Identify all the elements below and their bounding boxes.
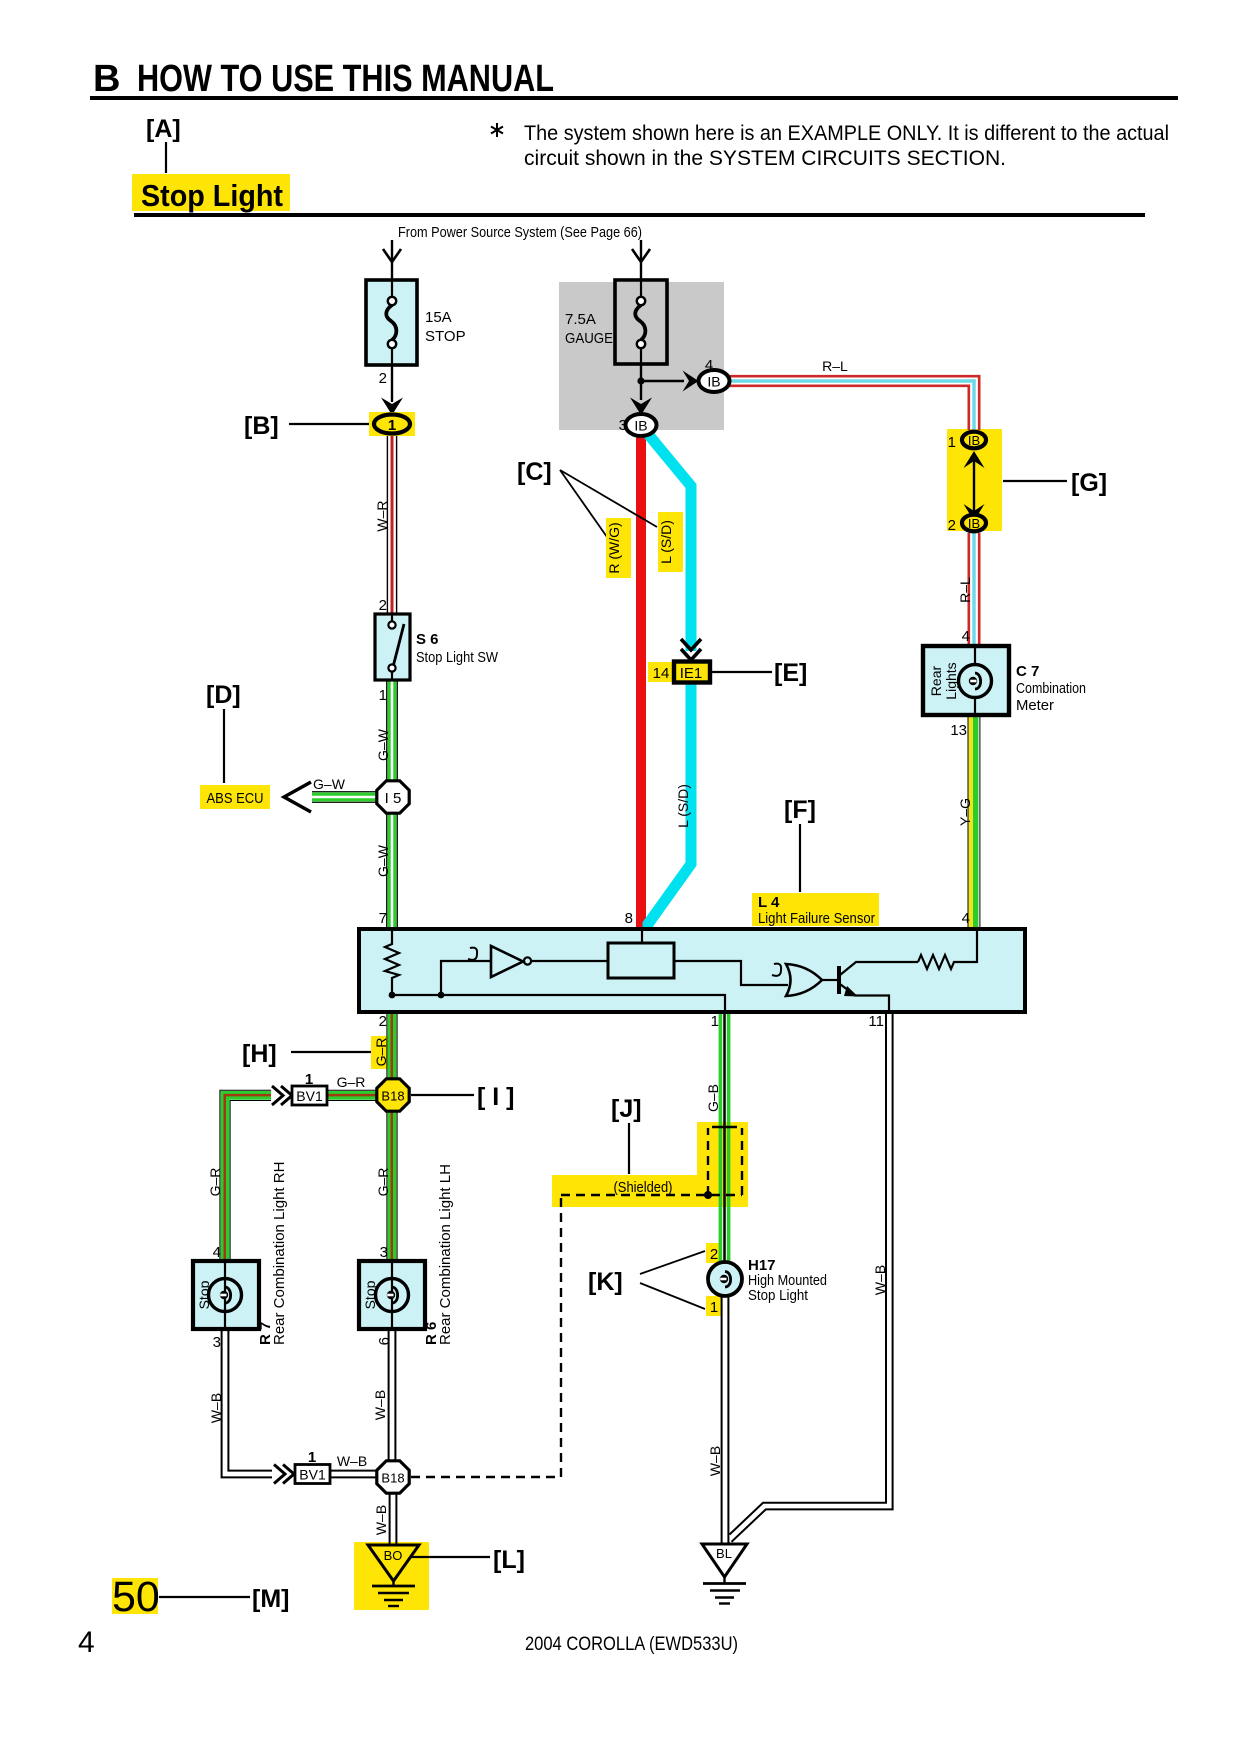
svg-text:BL: BL: [716, 1546, 732, 1561]
L4 light failure sensor box: [359, 929, 1025, 1012]
svg-text:BO: BO: [384, 1548, 403, 1563]
junction node: [637, 377, 644, 384]
svg-text:8: 8: [625, 910, 633, 927]
L4 control box: [608, 943, 674, 978]
svg-text:2: 2: [379, 1013, 387, 1030]
svg-text:2: 2: [948, 517, 956, 534]
svg-text:IB: IB: [634, 418, 647, 434]
svg-text:R–L: R–L: [957, 577, 973, 603]
svg-text:L 4: L 4: [758, 894, 780, 911]
wire fuse to connector 1: [391, 365, 393, 402]
svg-text:[E]: [E]: [774, 659, 807, 687]
GRAYBOX: [354, 282, 1002, 1610]
ABS ECU highlighted: [200, 785, 270, 809]
svg-text:6: 6: [376, 1337, 393, 1345]
svg-text:2: 2: [379, 597, 387, 614]
svg-text:W–B: W–B: [372, 1390, 388, 1420]
svg-text:4: 4: [962, 910, 970, 927]
highlight zone G connectors: [947, 429, 1002, 531]
svg-text:11: 11: [868, 1013, 884, 1030]
wire G-W (I5 to ABS ECU arrow): [312, 792, 377, 803]
wire W-B (L4 pin 11 down, corner, diagonal to BL): [730, 1011, 893, 1542]
switch S6 Stop Light SW: [375, 614, 499, 680]
svg-text:1: 1: [711, 1013, 719, 1030]
highlight zone ground BO: [354, 1542, 429, 1610]
label L: [410, 1546, 525, 1574]
junction arrows between IB1 and IB2: [973, 460, 975, 512]
wire L (S/D) thick cyan (IB to L4 pin 8): [648, 434, 691, 651]
svg-text:R–L: R–L: [822, 358, 848, 374]
ground BL: [702, 1544, 747, 1604]
fuse 15A STOP: [366, 280, 466, 365]
arrow into IB 4: [683, 371, 699, 392]
svg-text:W–B: W–B: [707, 1446, 723, 1476]
L4 name highlighted: [752, 893, 879, 927]
svg-text:[H]: [H]: [242, 1040, 277, 1068]
svg-text:15A: 15A: [425, 309, 452, 326]
svg-text:1: 1: [948, 434, 956, 451]
svg-text:W–R: W–R: [374, 500, 390, 531]
L4 internal branch to buffer: [441, 961, 490, 995]
L4 transistor Q1: [837, 966, 841, 994]
wire G-R (left corner to chevron, and down to R7): [220, 1090, 271, 1261]
svg-text:2: 2: [379, 370, 387, 387]
connector BV1 lower: [295, 1465, 330, 1484]
wire W-B (R6 pin 6 to B18): [389, 1329, 396, 1461]
wire G-R (L4 pin 2 to connector B18): [387, 1012, 397, 1079]
connector IB 4: [699, 370, 730, 392]
svg-text:Stop Light SW: Stop Light SW: [416, 649, 499, 666]
svg-text:The system shown here is an EX: The system shown here is an EXAMPLE ONLY…: [524, 122, 1169, 145]
label C with callouts: [517, 458, 657, 537]
svg-text:G–R: G–R: [207, 1168, 223, 1197]
connector B18 lower: [377, 1461, 409, 1493]
heading underline: [134, 213, 1145, 217]
svg-text:IB: IB: [968, 433, 980, 448]
svg-text:G–B: G–B: [705, 1084, 721, 1112]
svg-text:W–B: W–B: [373, 1505, 389, 1535]
connector IB 3: [626, 414, 657, 436]
arrow into connector 1: [381, 398, 403, 416]
svg-text:4: 4: [213, 1244, 221, 1261]
connector IE1 highlighted with pin 14: [648, 662, 710, 683]
chevron arrows into BV1 upper: [272, 1086, 292, 1105]
wire Y-G (meter pin 13 to L4 pin 4): [968, 715, 980, 929]
svg-text:2004 COROLLA (EWD533U): 2004 COROLLA (EWD533U): [525, 1633, 738, 1655]
svg-text:13: 13: [950, 722, 967, 739]
svg-text:[ I ]: [ I ]: [477, 1083, 515, 1111]
L4 OR gate: [786, 964, 822, 996]
high mounted stop light H17: [708, 1257, 827, 1304]
svg-text:I 5: I 5: [385, 790, 402, 807]
svg-text:circuit shown in the SYSTEM CI: circuit shown in the SYSTEM CIRCUITS SEC…: [524, 147, 1006, 170]
svg-text:IB: IB: [968, 516, 980, 531]
svg-text:4: 4: [962, 628, 970, 645]
highlight tag G-R at L4 pin 2: [371, 1036, 388, 1069]
label B: [244, 412, 369, 440]
wire G-R horizontal (BV1 to B18): [327, 1090, 376, 1100]
svg-text:1: 1: [388, 417, 396, 434]
wire G-R (B18 to R6): [387, 1112, 397, 1261]
L4 buffer to control box: [531, 960, 608, 962]
svg-text:W–B: W–B: [337, 1453, 367, 1469]
svg-text:G–W: G–W: [375, 728, 391, 761]
ground BO highlighted: [368, 1545, 419, 1606]
wire W-B (BV1 to B18): [330, 1471, 377, 1478]
svg-text:[C]: [C]: [517, 458, 552, 486]
svg-text:L (S/D): L (S/D): [675, 784, 691, 828]
svg-text:Rear Combination Light RH: Rear Combination Light RH: [271, 1162, 288, 1345]
example page number 50 highlighted: [112, 1573, 160, 1621]
svg-text:[F]: [F]: [784, 796, 816, 824]
svg-text:Stop Light: Stop Light: [141, 178, 283, 213]
svg-text:B18: B18: [381, 1089, 404, 1104]
wire R-L vertical (corner to IB 1): [969, 375, 979, 430]
title B HOW TO USE THIS MANUAL: [93, 58, 554, 100]
svg-text:BV1: BV1: [299, 1467, 326, 1483]
L4 hook symbol 1: [468, 948, 477, 960]
svg-text:S 6: S 6: [416, 631, 439, 648]
svg-text:14: 14: [653, 665, 670, 682]
svg-text:[L]: [L]: [493, 1546, 525, 1574]
branch wire to IB pin 4: [641, 380, 684, 382]
wire R-L horizontal (IB pin4 to right corner): [729, 376, 981, 386]
R6 name vertical: [423, 1164, 454, 1345]
rear combination light R7: [193, 1261, 259, 1329]
highlight tag H17 pin 2: [706, 1243, 722, 1263]
R7 name vertical: [257, 1162, 288, 1345]
label M: [159, 1585, 289, 1613]
svg-text:7: 7: [379, 910, 387, 927]
svg-text:L (S/D): L (S/D): [658, 520, 674, 564]
svg-text:Stop Light: Stop Light: [748, 1287, 809, 1304]
L4 pin 8 internal: [641, 929, 643, 943]
connector IB 2: [962, 515, 986, 532]
L4 OR to transistor: [822, 979, 838, 981]
wire W-B (B18 to ground BO): [390, 1494, 397, 1544]
svg-text:Rear Combination Light LH: Rear Combination Light LH: [437, 1164, 454, 1345]
connector BV1 upper: [292, 1086, 327, 1105]
wire W-B (R7 pin 3 down and right to BV1): [222, 1329, 272, 1477]
highlight tag H17 pin 1: [706, 1296, 722, 1316]
svg-text:Rear: Rear: [928, 665, 944, 696]
svg-text:IB: IB: [707, 374, 720, 390]
L4 buffer gate: [491, 946, 523, 977]
L4 transistor emitter arrow: [844, 986, 858, 997]
shield dashed line (B18 to shield net): [411, 1127, 742, 1477]
svg-text:Meter: Meter: [1016, 697, 1054, 714]
arrow into IB 3: [630, 398, 652, 416]
L4 junction dots: [389, 992, 396, 999]
connector 1 (highlighted): [369, 412, 415, 436]
wire W-B (H17 pin 1 to ground BL): [722, 1297, 729, 1544]
label H: [242, 1040, 371, 1068]
label I: [411, 1083, 515, 1111]
svg-text:W–B: W–B: [872, 1265, 888, 1295]
svg-text:[A]: [A]: [146, 115, 181, 143]
label F: [784, 796, 816, 892]
svg-text:3: 3: [213, 1334, 221, 1351]
svg-text:2: 2: [710, 1246, 718, 1263]
svg-text:[D]: [D]: [206, 681, 241, 709]
svg-text:Y–G: Y–G: [957, 798, 973, 826]
svg-text:G–R: G–R: [375, 1168, 391, 1197]
svg-text:Light Failure Sensor: Light Failure Sensor: [758, 910, 875, 927]
fuse 7.5A GAUGE: [565, 280, 667, 364]
chevron arrows into BV1 lower: [274, 1465, 294, 1484]
label A: [146, 115, 181, 173]
svg-text:GAUGE: GAUGE: [565, 330, 613, 347]
svg-text:STOP: STOP: [425, 328, 466, 345]
svg-text:G–W: G–W: [313, 776, 346, 792]
Stop Light heading highlight: [132, 174, 290, 213]
svg-text:4: 4: [705, 357, 713, 374]
svg-text:(Shielded): (Shielded): [614, 1179, 673, 1196]
wire label L (S/D) highlighted: [658, 512, 683, 572]
svg-text:Lights: Lights: [943, 662, 959, 699]
highlight zone shield: [697, 1122, 748, 1177]
power feed arrow left: [383, 240, 401, 280]
svg-text:1: 1: [379, 687, 387, 704]
L4 internal bus line: [392, 995, 725, 1012]
wire R (W/G) thick red (IB to L4 pin 8): [636, 436, 646, 929]
svg-text:[G]: [G]: [1071, 469, 1107, 497]
L4 hook symbol 2: [772, 964, 781, 976]
connector IB 1: [962, 432, 986, 449]
svg-text:ABS ECU: ABS ECU: [207, 790, 264, 807]
svg-text:C 7: C 7: [1016, 663, 1039, 680]
rear combination light R6: [359, 1261, 425, 1329]
svg-text:1: 1: [710, 1299, 718, 1316]
wire G-B (L4 pin 1 to H17 pin 2): [720, 1012, 728, 1262]
L4 internal resistor vertical: [385, 929, 399, 995]
svg-text:[B]: [B]: [244, 412, 279, 440]
title underline: [90, 96, 1178, 100]
svg-text:G–R: G–R: [337, 1074, 366, 1090]
svg-text:7.5A: 7.5A: [565, 311, 596, 328]
label K with callouts: [588, 1251, 705, 1309]
wire label R (W/G) highlighted: [606, 518, 631, 578]
junction connector I5: [377, 781, 409, 813]
combination meter C7: [923, 646, 1086, 715]
L4 internal resistor horizontal: [918, 929, 977, 969]
power feed arrow right: [632, 240, 650, 280]
svg-text:From Power Source System (See: From Power Source System (See Page 66): [398, 224, 642, 241]
label G: [1003, 469, 1107, 497]
svg-text:BV1: BV1: [296, 1088, 323, 1104]
svg-text:[M]: [M]: [252, 1585, 289, 1613]
svg-text:W–B: W–B: [208, 1393, 224, 1423]
wire fuse to IB connectors: [640, 364, 642, 400]
gauge fuse gray zone: [559, 282, 724, 430]
svg-text:B: B: [93, 58, 120, 100]
wire R-L vertical (IB 2 to combination meter pin 4): [969, 533, 979, 646]
arrow to ABS ECU: [284, 782, 311, 812]
label E: [711, 659, 807, 687]
svg-text:Combination: Combination: [1016, 680, 1086, 697]
svg-text:G–R: G–R: [373, 1038, 389, 1067]
svg-text:IE1: IE1: [680, 665, 703, 682]
wire G-W (S6 to I5): [387, 680, 398, 781]
svg-text:B18: B18: [381, 1471, 404, 1486]
svg-text:3: 3: [380, 1244, 388, 1261]
wire G-W (I5 to L4 pin 7): [387, 813, 398, 929]
svg-text:[K]: [K]: [588, 1268, 623, 1296]
svg-text:R (W/G): R (W/G): [606, 522, 622, 573]
label D: [206, 681, 241, 783]
wire W-R (fuse STOP to S6): [387, 435, 396, 614]
shield highlight zone: [614, 1179, 673, 1196]
guard chevrons into IE1: [681, 639, 701, 660]
svg-text:4: 4: [78, 1626, 95, 1659]
svg-text:[J]: [J]: [611, 1095, 642, 1123]
asterisk note: [491, 122, 1169, 170]
label J: [611, 1095, 642, 1174]
svg-text:G–W: G–W: [375, 844, 391, 877]
connector B18 upper highlighted: [377, 1079, 409, 1111]
svg-text:50: 50: [112, 1573, 160, 1621]
L4 control box to OR gate: [674, 961, 788, 985]
svg-text:HOW TO USE THIS MANUAL: HOW TO USE THIS MANUAL: [137, 58, 554, 100]
shield junction dot: [704, 1191, 712, 1199]
